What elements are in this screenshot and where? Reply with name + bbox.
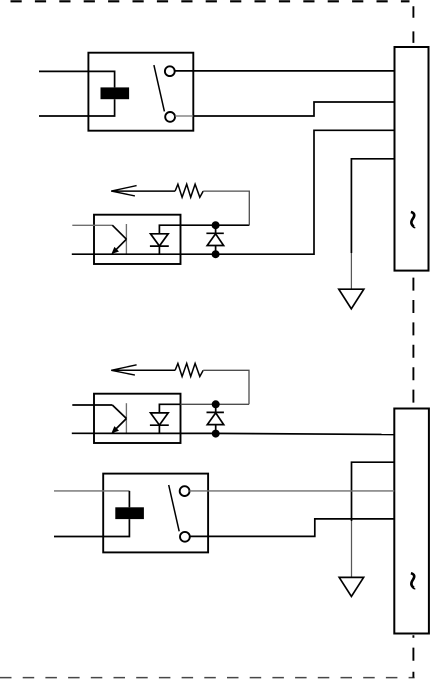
wire opto1 input top bbox=[72, 224, 112, 226]
zener D2 cathode bar bbox=[207, 411, 224, 413]
wire R1 to corner down to node bbox=[203, 191, 249, 225]
dashed border top bbox=[11, 0, 410, 2]
wire relay2 bottom contact stepped to J2 bbox=[190, 519, 395, 537]
relay 1 coil bbox=[101, 87, 130, 99]
break mark on J2 bbox=[411, 573, 415, 588]
wire relay2 top contact to J2 bbox=[189, 490, 394, 492]
zener D2 lead top bbox=[215, 404, 217, 412]
relay 1 box bbox=[88, 53, 193, 131]
connector J2 bbox=[394, 409, 429, 634]
arrow left opto2 bbox=[111, 365, 136, 375]
opto1 LED triangle bbox=[151, 234, 169, 246]
wire J1 ground stub bbox=[351, 159, 394, 253]
zener D2 triangle bbox=[207, 413, 223, 425]
arrow shaft opto2 bbox=[111, 369, 175, 371]
opto2 phototransistor collector diagonal bbox=[112, 405, 126, 419]
opto 2 box bbox=[94, 394, 181, 443]
resistor R1 bbox=[175, 184, 203, 197]
relay 1 contact bottom bbox=[165, 112, 175, 122]
zener D1 cathode bar bbox=[206, 232, 223, 234]
opto1 LED cathode bar bbox=[150, 245, 169, 247]
wire opto1 bottom node to J1 bbox=[212, 130, 395, 254]
wire relay2 input top bbox=[54, 490, 129, 492]
node dot opto2 top bbox=[212, 400, 220, 408]
wire relay1 input bottom bbox=[39, 99, 115, 116]
opto2 LED triangle bbox=[151, 413, 169, 425]
wire J2 ground stub bbox=[352, 462, 395, 521]
wire relay2 input bottom bbox=[54, 519, 129, 536]
arrow left opto1 bbox=[111, 186, 136, 196]
wire J2 ground stub lower bbox=[351, 521, 353, 577]
wire J1 ground stub lower bbox=[350, 253, 352, 289]
wire relay1 top contact to J1 bbox=[175, 70, 395, 72]
opto1 LED anode lead bbox=[159, 225, 180, 234]
ground symbol top bbox=[339, 289, 364, 309]
relay 2 switch blade bbox=[169, 485, 180, 531]
wire opto1 bottom through box bbox=[72, 253, 212, 255]
opto2 LED anode lead bbox=[159, 404, 180, 413]
wire relay1 input top bbox=[39, 71, 115, 87]
connector J1 bbox=[395, 47, 429, 271]
opto1 emitter arrowhead bbox=[111, 247, 119, 254]
node dot opto1 bottom bbox=[212, 250, 220, 258]
resistor R2 bbox=[175, 363, 203, 376]
wire opto1 top node bbox=[181, 224, 250, 226]
wire relay1 bottom contact to box edge bbox=[175, 115, 194, 117]
relay 2 coil bbox=[115, 507, 144, 519]
opto1 phototransistor emitter diagonal bbox=[115, 239, 126, 251]
break mark on J1 bbox=[411, 212, 415, 227]
wire opto2 top node bbox=[181, 403, 250, 405]
wire relay1 bottom contact stepped to J1 bbox=[193, 102, 394, 116]
wire R2 to corner down to node bbox=[203, 370, 249, 404]
node dot opto1 top bbox=[212, 221, 220, 229]
dashed line right lower bbox=[412, 635, 414, 677]
opto2 LED cathode bar bbox=[150, 424, 169, 426]
wire relay2 coil jog top bbox=[128, 491, 130, 507]
ground symbol bottom bbox=[339, 577, 363, 596]
opto1 phototransistor collector diagonal bbox=[112, 225, 126, 239]
opto 1 box bbox=[94, 215, 181, 264]
opto1 LED cathode lead bbox=[158, 246, 160, 254]
node dot opto2 bottom bbox=[212, 430, 220, 438]
zener D1 triangle bbox=[207, 234, 223, 246]
wire opto2 input top bbox=[72, 404, 112, 406]
zener D1 lead top bbox=[215, 225, 217, 233]
dashed line right upper bbox=[412, 6, 414, 46]
dashed line right middle bbox=[412, 278, 414, 409]
relay 2 contact bottom bbox=[180, 532, 190, 542]
arrow shaft opto1 bbox=[111, 190, 175, 192]
wire opto2 bottom node to J2 bbox=[212, 433, 394, 434]
relay 2 contact top bbox=[180, 486, 190, 496]
opto2 LED cathode lead bbox=[158, 425, 160, 433]
opto2 phototransistor bar bbox=[125, 403, 127, 433]
wire opto2 bottom through box bbox=[72, 432, 212, 434]
relay 1 switch blade bbox=[154, 65, 165, 111]
dashed border bottom bbox=[0, 677, 415, 679]
opto2 phototransistor emitter diagonal bbox=[115, 419, 126, 430]
opto2 emitter arrowhead bbox=[111, 426, 119, 433]
relay 1 contact top bbox=[165, 66, 175, 76]
opto1 phototransistor bar bbox=[125, 224, 127, 254]
relay 2 box bbox=[103, 474, 208, 553]
zener D2 lead bottom bbox=[215, 425, 217, 434]
zener D1 lead bottom bbox=[215, 246, 217, 255]
